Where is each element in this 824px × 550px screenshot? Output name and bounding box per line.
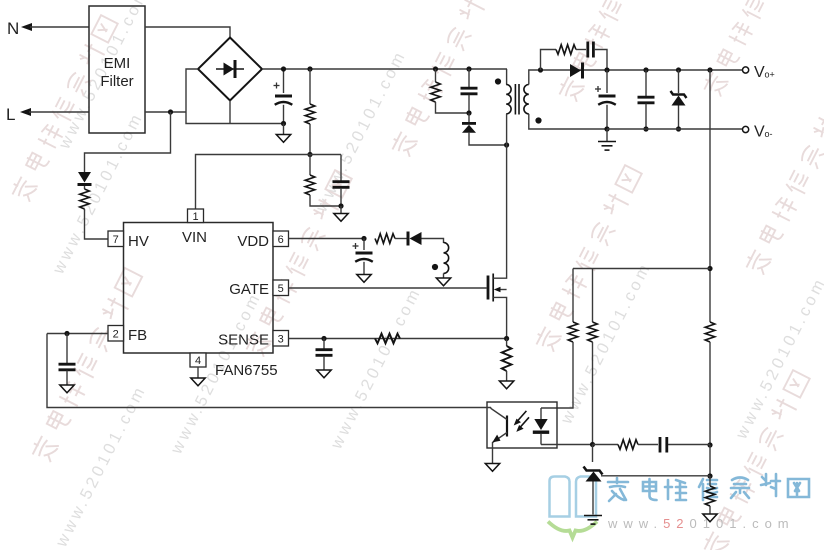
ground sense resistor: [499, 381, 513, 389]
optocoupler U2 LED: [533, 408, 549, 445]
node junction FB cap: [64, 331, 69, 336]
wire LED cathode to TL431 node: [541, 444, 593, 446]
svg-text:www.520101.com: www.520101.com: [327, 284, 425, 453]
svg-text:3: 3: [278, 334, 284, 346]
svg-text:N: N: [7, 19, 19, 38]
wire opto supply branch: [572, 269, 574, 323]
wire DC+ rail from bridge right vertex: [262, 68, 507, 70]
wire L input with arrow: [20, 108, 89, 116]
svg-text:o+: o+: [765, 70, 775, 80]
ground earth secondary: [598, 129, 616, 150]
optocoupler U2 light arrows: [514, 411, 529, 432]
ground sense cap: [317, 370, 331, 378]
node junction C2 bottom: [338, 203, 343, 208]
node junction VDD cap: [361, 236, 366, 241]
wire secondary top rail: [541, 69, 743, 71]
svg-text:FAN6755: FAN6755: [215, 362, 278, 379]
transistor Q1 MOSFET: [487, 145, 507, 339]
diode ZD1 output zener: [671, 70, 687, 129]
capacitor C5 output electrolytic: [595, 70, 616, 129]
pin 1 VIN: [182, 209, 207, 246]
inductor L1 aux winding: [444, 243, 449, 279]
svg-text:www.520101.com: www.520101.com: [607, 516, 795, 531]
capacitor C9 sense filter: [316, 339, 333, 371]
svg-text:o-: o-: [765, 129, 773, 139]
ground earth TL431: [584, 516, 602, 525]
svg-text:Filter: Filter: [100, 73, 133, 90]
resistor R2 VIN upper: [305, 69, 315, 155]
regulator U3 TL431 shunt: [584, 445, 603, 515]
pin 6 VDD: [237, 231, 288, 250]
pin 4 GND: [190, 353, 206, 367]
node junction DC+ at clamp C: [466, 66, 471, 71]
resistor R9 TL431 bias: [588, 269, 598, 445]
resistor R10 compensation: [593, 440, 659, 450]
ground IC pin4: [191, 367, 205, 386]
node junction output rail at C6: [643, 67, 648, 72]
node junction clamp RC: [466, 110, 471, 115]
wire feedback rail vertical: [709, 70, 711, 322]
resistor R8 opto series: [541, 322, 578, 408]
capacitor C4 secondary snubber: [588, 42, 607, 71]
node junction C5 bottom: [604, 126, 609, 131]
svg-text:7: 7: [113, 234, 119, 246]
wire bridge left vertex to DC- rail: [186, 69, 284, 124]
resistor R11 VDD series: [375, 234, 407, 244]
transformer T1 secondary winding: [524, 70, 607, 129]
diode D4 VDD rectifier: [407, 232, 444, 246]
pin 5 GATE: [229, 280, 288, 298]
node junction output rail at zener: [676, 67, 681, 72]
node junction feedback supply line: [707, 266, 712, 271]
node junction C6 bottom: [643, 126, 648, 131]
diode D3 output rectifier: [570, 63, 584, 79]
ground primary at bulk cap: [276, 124, 290, 143]
svg-text:GATE: GATE: [229, 281, 269, 298]
node L label: [6, 105, 15, 124]
node transformer primary polarity dot: [495, 78, 501, 84]
resistor R5 secondary snubber: [541, 45, 587, 70]
node aux winding polarity dot: [432, 264, 438, 270]
logo layer: [548, 474, 809, 538]
svg-text:2: 2: [113, 329, 119, 341]
node junction output diode cathode: [604, 67, 609, 72]
wire EMI bottom output (L line): [145, 111, 186, 113]
node N label: [7, 19, 19, 38]
wire FB to optocoupler collector: [47, 334, 491, 408]
optocoupler U2 box: [487, 402, 557, 448]
capacitor C7 compensation: [660, 437, 710, 453]
svg-text:5: 5: [278, 283, 284, 295]
resistor R1 startup: [80, 189, 90, 209]
node junction L startup tap: [168, 109, 173, 114]
wire bridge bottom vertex down: [229, 101, 231, 124]
op-amp U1 FAN6755 controller box: [124, 223, 274, 354]
transformer T1 primary winding: [506, 69, 511, 145]
capacitor C1 bulk: [274, 69, 293, 124]
svg-text:SENSE: SENSE: [218, 332, 269, 349]
capacitor C6 output ceramic: [638, 70, 655, 129]
resistor R12 sense series: [375, 334, 400, 344]
optocoupler U2 phototransistor: [491, 408, 507, 464]
wire startup tap down-left: [85, 112, 171, 172]
svg-text:www.520101.com: www.520101.com: [732, 274, 824, 443]
node junction ref line: [707, 473, 712, 478]
wire FB pin2: [47, 333, 108, 335]
capacitor C2 VIN filter: [310, 155, 350, 207]
node junction DC+ at startup resistor: [307, 66, 312, 71]
wire SENSE pin3: [289, 338, 507, 340]
node junction snubber left: [538, 67, 543, 72]
svg-text:FB: FB: [128, 327, 147, 344]
node junction comp cap to rail: [707, 442, 712, 447]
wire feedback supply horizontal: [573, 268, 710, 270]
node transformer secondary polarity dot: [535, 117, 541, 123]
ground opto emitter: [485, 464, 499, 472]
svg-text:VDD: VDD: [237, 233, 269, 250]
capacitor C8 VDD electrolytic: [353, 239, 373, 275]
resistor R7 divider lower: [705, 476, 715, 514]
svg-text:6: 6: [278, 234, 284, 246]
diode D2 clamp: [462, 113, 507, 145]
node junction bulk cap top: [281, 66, 286, 71]
EMI Filter block: [89, 6, 145, 133]
svg-text:4: 4: [195, 355, 201, 367]
node junction MOSFET source: [504, 336, 509, 341]
wire R1 to HV pin: [85, 209, 109, 239]
diode D1 startup: [78, 172, 92, 189]
pin 3 SENSE: [218, 331, 288, 349]
wire VIN node to pin1 riser: [196, 155, 311, 210]
capacitor C10 FB: [59, 334, 76, 386]
resistor R3 VIN lower: [305, 155, 341, 207]
svg-text:L: L: [6, 105, 15, 124]
node junction zener bottom: [676, 126, 681, 131]
node junction TL431 cathode: [590, 442, 595, 447]
node junction feedback rail tap: [707, 67, 712, 72]
svg-text:HV: HV: [128, 233, 149, 250]
ground VDD cap: [357, 275, 371, 283]
node junction clamp to drain column: [504, 142, 509, 147]
svg-text:1: 1: [192, 211, 198, 223]
wire EMI top output to bridge: [145, 27, 230, 39]
ground primary at C2: [334, 206, 348, 221]
svg-text:V: V: [754, 64, 765, 81]
wire rail to ref node: [709, 445, 711, 476]
wire N input with arrow: [21, 23, 89, 31]
wire TL431 ref line: [601, 475, 710, 477]
svg-text:VIN: VIN: [182, 229, 207, 246]
terminal Vo+: [743, 64, 775, 81]
svg-text:EMI: EMI: [104, 55, 131, 72]
wire VDD pin6: [289, 238, 365, 240]
node junction VIN divider: [307, 152, 312, 157]
terminal Vo-: [743, 124, 773, 141]
resistor R6 divider upper: [705, 322, 715, 445]
bridge rectifier BD1: [198, 38, 262, 101]
resistor R13 current sense: [502, 339, 512, 382]
ground aux winding: [436, 278, 450, 286]
node junction DC- at bulk cap: [281, 121, 286, 126]
node junction DC+ at clamp R: [433, 66, 438, 71]
node junction sense filter cap: [321, 336, 326, 341]
pin 2 FB: [108, 326, 147, 345]
svg-text:V: V: [754, 124, 765, 141]
capacitor C3 clamp: [461, 69, 478, 113]
ground secondary divider: [703, 514, 717, 522]
transformer T1 core: [515, 84, 519, 115]
label FAN6755: [215, 362, 278, 379]
resistor R4 clamp: [431, 69, 469, 113]
pin 7 HV: [108, 231, 149, 250]
wire secondary bottom rail to output: [607, 128, 743, 130]
wire GATE pin5 to MOSFET: [289, 287, 487, 289]
ground FB cap: [60, 385, 74, 393]
